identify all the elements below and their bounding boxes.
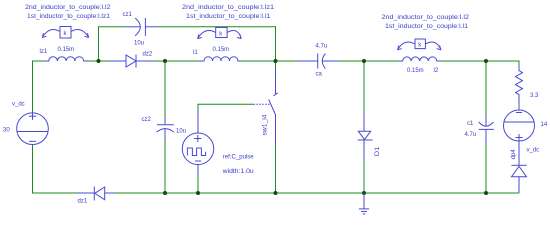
svg-text:4.7u: 4.7u — [465, 132, 477, 138]
capacitor C1 4.7u — [465, 115, 494, 144]
wire d1 branch lower — [363, 159, 365, 193]
wire main rail l2 to right column — [439, 61, 519, 66]
wire c1 branch lower — [485, 144, 487, 193]
wire left column bottom — [33, 145, 77, 194]
wire cz2 branch upper — [164, 61, 166, 116]
svg-text:D1: D1 — [375, 146, 381, 156]
svg-text:4.7u: 4.7u — [316, 44, 328, 50]
svg-text:1st_inductor_to_couple:l.l1: 1st_inductor_to_couple:l.l1 — [186, 14, 271, 20]
svg-text:10u: 10u — [134, 41, 144, 47]
wire top loop right of cz1 and riser down to node C — [157, 27, 276, 61]
svg-text:dz2: dz2 — [143, 52, 153, 58]
node E junction (c1 branch) — [484, 59, 488, 63]
svg-text:cz1: cz1 — [123, 12, 133, 18]
wire main rail l1 to ca — [239, 60, 297, 62]
wire pulse source control line to switch — [198, 104, 254, 111]
node I junction bottom d1/ground — [362, 191, 366, 195]
svg-text:2nd_inductor_to_couple:l.l2: 2nd_inductor_to_couple:l.l2 — [382, 15, 470, 21]
svg-text:dz1: dz1 — [78, 199, 88, 205]
coupling K2 (lz1-l1) — [198, 28, 242, 39]
svg-text:l2: l2 — [434, 68, 439, 74]
wire c1 branch upper — [485, 61, 487, 115]
svg-text:0.15m: 0.15m — [58, 47, 75, 53]
wire d1 branch upper — [363, 61, 365, 113]
pulse source C_pulse — [182, 112, 254, 176]
wire main rail lz1 to node A — [87, 60, 110, 62]
node D junction (d1 branch) — [362, 59, 366, 63]
svg-text:dp4: dp4 — [511, 149, 517, 160]
svg-text:30: 30 — [3, 128, 10, 134]
wire main rail dz2 to l1 — [155, 60, 199, 62]
diode DZ2 — [110, 52, 155, 68]
svg-text:2nd_inductor_to_couple:l.lz1: 2nd_inductor_to_couple:l.lz1 — [182, 5, 275, 11]
wire pulse source bottom — [197, 176, 199, 194]
node F junction bottom cz2 — [163, 191, 167, 195]
node C junction (switch branch) — [274, 59, 278, 63]
coupling K3 (l2-l1) — [398, 39, 441, 50]
svg-text:2nd_inductor_to_couple:l.l2: 2nd_inductor_to_couple:l.l2 — [25, 5, 111, 11]
svg-text:0.15m: 0.15m — [213, 47, 230, 53]
svg-text:ca: ca — [316, 72, 323, 78]
voltage source V1 v_dc 30 — [3, 102, 48, 145]
node J junction bottom c1 — [484, 191, 488, 195]
wire cz2 branch lower — [164, 140, 166, 193]
wire switch branch lower — [275, 143, 277, 193]
resistor R1 3.3 — [516, 66, 540, 111]
svg-text:1st_inductor_to_couple:l.lz1: 1st_inductor_to_couple:l.lz1 — [27, 14, 111, 20]
svg-text:l1: l1 — [193, 50, 198, 56]
capacitor CZ1 10u — [123, 12, 158, 47]
wire switch branch upper stub — [275, 61, 277, 69]
node A junction (top rail / dz2) — [97, 59, 101, 63]
ground — [359, 193, 369, 214]
svg-text:sw1_l4: sw1_l4 — [262, 114, 268, 136]
svg-text:c1: c1 — [467, 121, 474, 127]
wire top loop left riser and top rail to cz1 — [99, 27, 126, 61]
node H junction bottom switch — [274, 191, 278, 195]
diode DP4 — [511, 141, 526, 193]
diode DZ1 — [77, 187, 116, 205]
voltage source V2 v_dc 14 — [504, 110, 548, 154]
wire bottom rail — [115, 192, 519, 194]
svg-text:0.15m: 0.15m — [407, 68, 424, 74]
node G junction bottom pulse — [196, 191, 200, 195]
svg-text:width:1.0u: width:1.0u — [222, 169, 254, 175]
switch SW1 — [254, 69, 278, 144]
capacitor CA 4.7u — [297, 44, 339, 78]
wire main rail ca to l2 — [339, 60, 399, 62]
diode D1 — [358, 113, 381, 159]
svg-text:ref:C_pulse: ref:C_pulse — [223, 154, 255, 160]
svg-text:lz1: lz1 — [40, 49, 48, 55]
inductor L1 0.15m — [193, 47, 239, 61]
wire left column top (v_dc V1 to main rail) — [33, 61, 45, 113]
svg-text:v_dc: v_dc — [12, 102, 25, 108]
svg-text:v_dc: v_dc — [527, 148, 540, 154]
capacitor CZ2 10u — [142, 116, 187, 140]
inductor LZ1 0.15m — [40, 47, 88, 61]
svg-text:3.3: 3.3 — [530, 93, 539, 99]
svg-text:1st_inductor_to_couple:l.l1: 1st_inductor_to_couple:l.l1 — [385, 24, 469, 30]
coupling K1 (lz1-l2) — [42, 27, 88, 39]
inductor L2 0.15m — [399, 57, 440, 74]
node B junction (cz2 branch) — [163, 59, 167, 63]
svg-text:14: 14 — [541, 122, 548, 128]
svg-text:cz2: cz2 — [142, 117, 152, 123]
svg-text:10u: 10u — [176, 129, 186, 135]
